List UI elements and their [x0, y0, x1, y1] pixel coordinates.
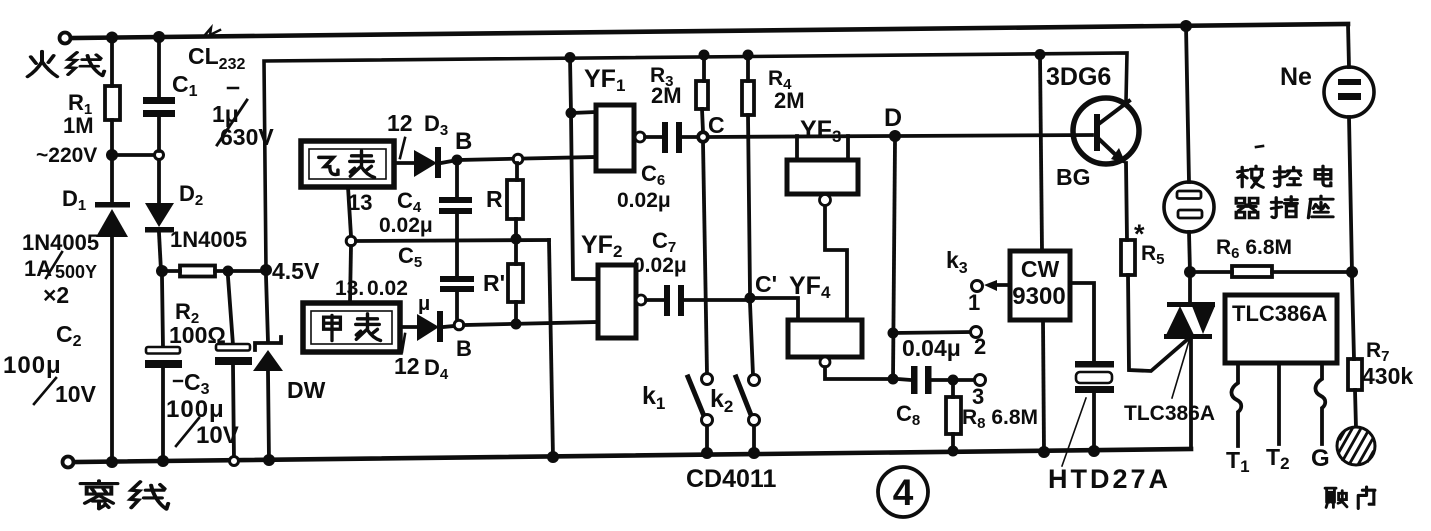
label slash C1	[217, 100, 247, 145]
svg-text:k2: k2	[710, 385, 733, 416]
svg-text:100μ: 100μ	[3, 352, 62, 379]
svg-text:430k: 430k	[1362, 363, 1413, 389]
svg-text:1M: 1M	[63, 113, 94, 138]
svg-text:2: 2	[974, 334, 986, 359]
wire socket branch	[1186, 26, 1189, 182]
node ring B prime	[454, 320, 464, 330]
svg-text:C8: C8	[896, 401, 920, 429]
svg-text:12: 12	[387, 110, 413, 136]
node junction C3 top	[223, 266, 234, 277]
node R bottom	[511, 234, 522, 245]
capacitor C6	[645, 122, 698, 153]
svg-text:T2: T2	[1266, 444, 1290, 473]
gate YF4	[788, 320, 862, 357]
node k3-2 tap	[888, 328, 899, 339]
wire node D down	[893, 141, 895, 380]
bubble YF3 output	[820, 195, 831, 206]
gate YF1	[596, 105, 634, 171]
svg-text:0.02: 0.02	[367, 277, 408, 300]
svg-text:10V: 10V	[55, 381, 97, 407]
terminal k3-2	[971, 327, 982, 338]
wire B prime to YF2 input	[464, 322, 598, 325]
node R4 top	[743, 50, 754, 61]
label dash under CL232	[228, 87, 238, 90]
wire 乙表 pin13	[348, 187, 351, 236]
svg-text:~220V: ~220V	[36, 144, 97, 167]
svg-text:1A: 1A	[24, 256, 52, 281]
gate YF2	[598, 265, 636, 338]
terminal k3-1	[972, 281, 983, 292]
node YF4 output junction	[888, 374, 899, 385]
svg-text:3DG6: 3DG6	[1046, 63, 1111, 91]
node ring mid tie	[346, 236, 356, 246]
svg-text:k1: k1	[642, 382, 665, 413]
wire R2 to 4.5V node	[228, 269, 266, 273]
svg-text:R6 6.8M: R6 6.8M	[1216, 236, 1292, 262]
svg-text:TLC386A: TLC386A	[1124, 402, 1215, 425]
svg-text:G: G	[1311, 445, 1330, 472]
capacitor C7	[646, 285, 745, 316]
wire CW9300 ground pin	[1043, 320, 1044, 452]
wire YF3 output to YF4 input	[825, 206, 847, 320]
svg-text:D: D	[884, 104, 902, 132]
node YF1 input tie	[566, 108, 577, 119]
wire C prime to YF4 input	[755, 298, 798, 320]
label 融片	[1325, 487, 1375, 508]
svg-text:HTD27A: HTD27A	[1048, 464, 1171, 494]
svg-text:13.: 13.	[335, 277, 364, 300]
node mid tie ground	[547, 451, 559, 463]
svg-text:R: R	[486, 186, 503, 212]
diode D4	[417, 311, 454, 342]
transistor BG 3DG6	[1073, 98, 1139, 240]
node k1 ground	[701, 447, 713, 459]
wire bottom ground rail	[74, 449, 1191, 462]
svg-text:C': C'	[755, 271, 777, 297]
capacitor C3 electrolytic	[215, 277, 252, 461]
svg-text:13: 13	[348, 190, 372, 215]
zener diode DW	[253, 276, 283, 461]
node junction C1/top rail	[153, 31, 165, 43]
meter box 乙表	[301, 141, 394, 187]
svg-text:R5: R5	[1141, 242, 1165, 268]
label slash C3	[176, 418, 199, 446]
node right rail R6	[1346, 266, 1358, 278]
node socket branch top	[1180, 20, 1192, 32]
capacitor C4	[439, 165, 472, 276]
node ring on C1 branch	[155, 151, 164, 160]
terminal 零线 neutral	[63, 457, 74, 468]
resistor R6	[1195, 266, 1349, 277]
wire mid tie to ground rail	[549, 240, 553, 457]
label 零线	[81, 481, 169, 509]
node CW9300 supply tap	[1035, 49, 1046, 60]
wire CW9300 supply	[1040, 55, 1042, 251]
node C ring	[698, 132, 708, 142]
wire to k3 terminal 3	[958, 378, 974, 382]
wire 4.5V supply riser and rail	[264, 53, 1127, 270]
svg-text:R': R'	[483, 270, 505, 296]
label dot above 被	[1256, 146, 1263, 147]
capacitor C5	[440, 276, 474, 320]
wire node D to transistor base	[900, 135, 1092, 136]
resistor R2	[162, 266, 228, 277]
svg-text:12: 12	[394, 353, 420, 379]
wire 220V horizontal	[112, 153, 154, 157]
label C3	[174, 380, 182, 382]
svg-text:DW: DW	[287, 377, 326, 403]
resistor R3	[696, 55, 708, 132]
node ring C3 bottom	[230, 457, 239, 466]
figure number 4	[878, 467, 928, 517]
node R prime bottom	[511, 319, 522, 330]
svg-text:YF1: YF1	[584, 65, 625, 95]
wire CW9300 to k3 arrow	[984, 280, 1010, 291]
wire mid tie horizontal	[356, 240, 549, 241]
wire to k3 terminal 2	[893, 332, 970, 333]
wire C prime down to k2	[750, 303, 753, 375]
svg-text:μ: μ	[418, 293, 430, 315]
leader line TLC386A label	[1172, 341, 1189, 398]
node HTD ground	[1088, 445, 1100, 457]
svg-text:TLC386A: TLC386A	[1232, 301, 1327, 326]
node CW ground	[1038, 446, 1050, 458]
svg-text:C7: C7	[652, 228, 676, 256]
svg-text:D1: D1	[62, 186, 86, 214]
capacitor C8	[898, 366, 948, 394]
switch k1	[688, 374, 713, 454]
svg-text:10V: 10V	[196, 422, 239, 449]
node k2 ground	[748, 447, 760, 459]
svg-text:D4: D4	[424, 355, 449, 383]
resistor R4	[742, 55, 754, 293]
svg-text:T1: T1	[1226, 447, 1250, 476]
wire 乙表 pin12 output	[394, 161, 414, 165]
svg-text:1N4005: 1N4005	[170, 227, 247, 252]
svg-text:C1: C1	[172, 71, 198, 100]
wire CW9300 to HTD27A	[1070, 283, 1094, 362]
node 4.5V	[260, 264, 272, 276]
svg-text:D3: D3	[424, 111, 448, 139]
neon lamp Ne	[1324, 24, 1374, 272]
triac TLC386A	[1164, 277, 1215, 449]
svg-text:0.04μ: 0.04μ	[902, 335, 961, 361]
svg-text:4.5V: 4.5V	[272, 258, 320, 284]
capacitor C2 electrolytic	[145, 277, 182, 461]
node junction rectifier output	[156, 265, 168, 277]
svg-text:YF3: YF3	[800, 116, 841, 146]
label slash C2	[34, 378, 56, 404]
svg-text:B: B	[456, 336, 472, 361]
bubble YF4 output	[820, 357, 830, 367]
node C prime	[745, 293, 756, 304]
svg-text:2M: 2M	[774, 88, 805, 113]
wire tie-high vertical to YF1/YF2 inputs	[570, 57, 598, 279]
svg-text:C6: C6	[641, 161, 665, 189]
wire YF4 output	[825, 367, 893, 379]
svg-text:×2: ×2	[43, 282, 69, 308]
svg-text:C3: C3	[184, 369, 210, 398]
piezo HTD27A	[1075, 361, 1114, 451]
svg-text:0.02μ: 0.02μ	[617, 189, 671, 212]
svg-text:C5: C5	[398, 243, 422, 271]
svg-text:9300: 9300	[1012, 283, 1065, 310]
touch plate 融片	[1337, 427, 1375, 465]
svg-text:C2: C2	[56, 321, 82, 350]
meter box 甲表	[303, 303, 400, 352]
node DW bottom	[263, 454, 275, 466]
resistor R1	[105, 38, 120, 155]
node R8 top	[948, 375, 959, 386]
pin G	[1315, 363, 1325, 444]
socket 被控电器插座	[1164, 182, 1214, 232]
wire 甲表 pin13 riser	[350, 246, 351, 303]
pin tick 12	[400, 138, 405, 158]
svg-text:2M: 2M	[651, 83, 682, 108]
pin T1	[1231, 363, 1241, 446]
switch k2	[736, 375, 760, 454]
svg-text:YF2: YF2	[581, 231, 622, 261]
svg-text:CW: CW	[1021, 256, 1060, 282]
terminal 火线 live input	[60, 33, 71, 44]
resistor R prime	[508, 241, 523, 322]
svg-text:k3: k3	[946, 247, 968, 277]
svg-text:0.02μ: 0.02μ	[379, 214, 433, 237]
capacitor C1	[143, 40, 175, 205]
svg-text:1: 1	[968, 290, 980, 315]
node R6 left	[1184, 266, 1196, 278]
bubble YF1 output	[635, 132, 645, 142]
svg-text:500Y: 500Y	[55, 262, 97, 282]
wire node C to node D	[708, 136, 895, 137]
svg-text:B: B	[455, 128, 472, 155]
IC CW9300	[1010, 251, 1070, 320]
svg-text:C: C	[708, 112, 725, 138]
node B	[452, 155, 463, 166]
node R3 top	[699, 50, 710, 61]
leader line HTD27A	[1062, 398, 1086, 466]
diode D1	[95, 155, 130, 462]
svg-text:100μ: 100μ	[166, 396, 225, 423]
node ring R top	[513, 154, 523, 164]
svg-text:YF4: YF4	[789, 272, 831, 302]
resistor R	[507, 163, 523, 236]
pin T2	[1277, 363, 1281, 444]
svg-text:R8 6.8M: R8 6.8M	[962, 406, 1038, 432]
svg-text:C4: C4	[397, 188, 422, 216]
IC TLC386A box	[1225, 295, 1337, 363]
label 器插座	[1236, 196, 1333, 218]
wire node B to YF1 input	[457, 157, 596, 160]
wire artifact tick on rail	[205, 28, 220, 35]
resistor R8	[946, 385, 961, 451]
wire node C down to k1	[703, 142, 707, 374]
svg-text:Ne: Ne	[1280, 63, 1312, 91]
svg-text:D2: D2	[179, 181, 203, 209]
diode D2	[145, 203, 174, 271]
resistor R5	[1121, 240, 1189, 371]
label 火线	[28, 51, 105, 76]
wire socket to R6 node	[1189, 232, 1190, 272]
gate YF3	[787, 136, 858, 194]
node tie-high on 4.5V rail	[565, 52, 576, 63]
svg-text:CD4011: CD4011	[686, 465, 776, 493]
node C2 bottom	[157, 455, 169, 467]
node D	[889, 130, 901, 142]
diode D3	[414, 147, 452, 178]
resistor R7	[1348, 277, 1362, 428]
bubble YF2 output	[636, 295, 646, 305]
svg-text:4: 4	[893, 472, 914, 513]
pin tick 12 lower	[402, 334, 405, 352]
terminal k3-3	[975, 375, 986, 386]
svg-text:BG: BG	[1056, 164, 1091, 190]
svg-text:0.02μ: 0.02μ	[633, 254, 687, 277]
node junction R1/top rail	[106, 32, 118, 44]
wire top supply rail	[71, 24, 1348, 38]
label 被控电	[1237, 166, 1330, 187]
node junction 220V	[106, 149, 118, 161]
svg-text:CL232: CL232	[188, 43, 245, 73]
wire 甲表 pin12 output	[400, 325, 417, 329]
svg-text:R7: R7	[1366, 339, 1390, 365]
node D1 bottom	[106, 456, 118, 468]
node R8 bottom	[948, 446, 959, 457]
svg-text:1N4005: 1N4005	[22, 230, 99, 255]
